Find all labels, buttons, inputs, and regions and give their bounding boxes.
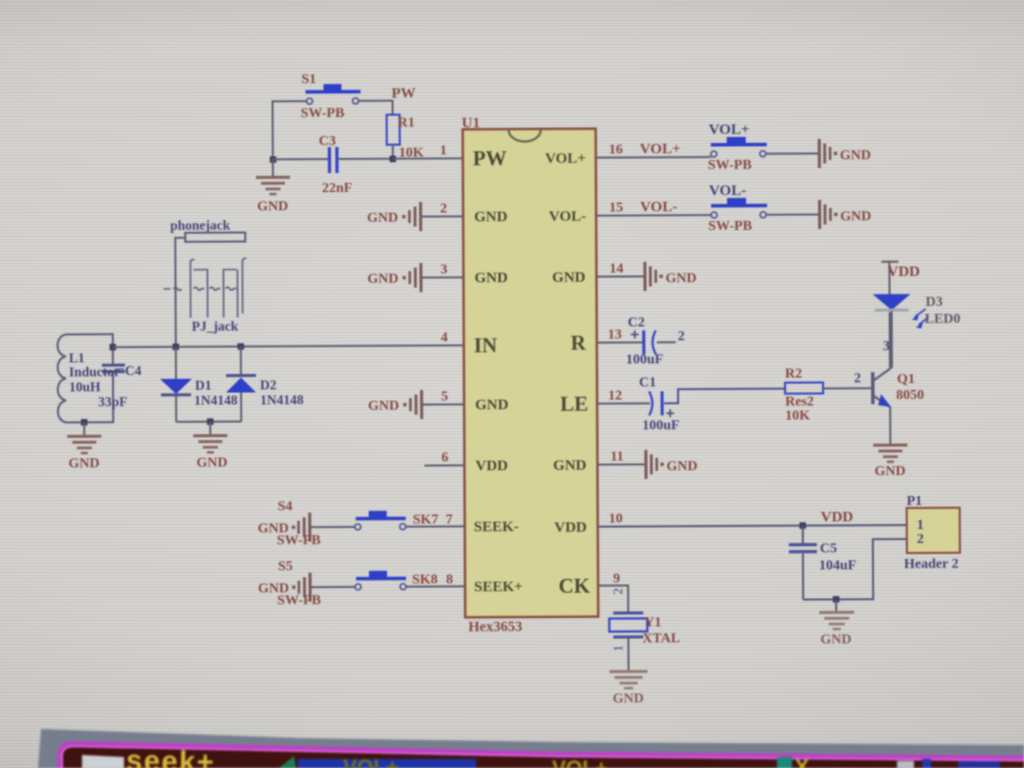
- wire pin14 to gnd: [596, 275, 644, 277]
- wire GND node to C3: [273, 158, 329, 160]
- svg-text:GND: GND: [840, 209, 871, 224]
- svg-text:3: 3: [440, 262, 447, 277]
- gnd terminal pin3: [367, 263, 463, 293]
- svg-text:X: X: [795, 756, 809, 768]
- svg-text:GND: GND: [257, 199, 288, 214]
- svg-text:16: 16: [609, 143, 623, 158]
- svg-text:2: 2: [440, 201, 447, 216]
- svg-text:SEEK-: SEEK-: [474, 519, 519, 535]
- svg-text:Hex3653: Hex3653: [468, 619, 522, 635]
- gnd terminal S4 row: [258, 512, 355, 542]
- svg-text:10: 10: [609, 512, 623, 527]
- svg-text:22nF: 22nF: [322, 181, 352, 196]
- svg-text:14: 14: [609, 262, 623, 277]
- svg-text:9: 9: [613, 572, 620, 587]
- wire pin9 to crystal: [598, 585, 628, 612]
- svg-text:phonejack: phonejack: [170, 218, 231, 233]
- label C4 with leader: [115, 368, 124, 370]
- svg-text:GND: GND: [367, 211, 398, 226]
- svg-text:33pF: 33pF: [98, 394, 127, 409]
- white thumbnail: [82, 755, 124, 768]
- svg-text:GND: GND: [474, 209, 508, 225]
- node D2 top: [238, 343, 245, 350]
- svg-text:2: 2: [678, 329, 685, 344]
- node junction left of C3: [270, 156, 277, 163]
- bottom video window gray frame: [38, 729, 1024, 768]
- blue bar VOL: [298, 759, 476, 768]
- diode D1: [160, 347, 238, 422]
- svg-text:U1: U1: [462, 115, 480, 131]
- teal icon: [777, 757, 792, 768]
- node gnd stem: [833, 596, 840, 603]
- svg-text:SK7: SK7: [413, 512, 439, 527]
- svg-text:100uF: 100uF: [642, 418, 679, 433]
- capacitor C4 plates: [102, 364, 125, 367]
- svg-text:C1: C1: [639, 375, 656, 390]
- wire C3 to R1 node: [339, 158, 393, 160]
- svg-text:S5: S5: [278, 559, 293, 574]
- svg-text:8: 8: [446, 572, 453, 587]
- switch VOL-: [708, 183, 767, 234]
- wire C1 to R2: [664, 389, 785, 404]
- svg-text:VOL-: VOL-: [640, 199, 677, 215]
- green marker: [279, 756, 296, 768]
- node D1 top: [173, 344, 180, 351]
- U1 notch: [509, 130, 541, 142]
- svg-text:VOL+: VOL+: [552, 757, 607, 768]
- wire S4 to pin7: [406, 525, 465, 527]
- svg-text:GND: GND: [874, 464, 905, 479]
- svg-text:LED0: LED0: [925, 312, 961, 327]
- svg-text:Y1: Y1: [644, 615, 661, 630]
- svg-text:Q1: Q1: [897, 372, 915, 387]
- bottom video dark red panel: [63, 746, 1024, 768]
- svg-text:SW-PB: SW-PB: [301, 106, 345, 121]
- connector P1: [904, 494, 960, 572]
- switch S4: [277, 499, 406, 549]
- wire switch VOL- to gnd: [766, 213, 819, 215]
- svg-text:VOL-: VOL-: [709, 183, 746, 199]
- IC U1 body: [463, 129, 599, 618]
- wire D1 D2 bottom: [176, 421, 241, 423]
- svg-text:Inductor: Inductor: [69, 364, 120, 379]
- transistor Q1: [871, 368, 924, 407]
- svg-text:VDD: VDD: [475, 458, 508, 474]
- node junction R1 bottom: [390, 156, 397, 163]
- svg-text:C2: C2: [628, 315, 645, 330]
- ground below diodes: [193, 422, 227, 471]
- ground below S1: [256, 159, 290, 214]
- wire pin12 to C1: [597, 402, 650, 404]
- svg-text:VOL+: VOL+: [343, 756, 398, 768]
- svg-text:2: 2: [854, 371, 861, 386]
- wire R2 to Q1 base: [823, 387, 871, 389]
- svg-text:10uH: 10uH: [69, 379, 101, 394]
- svg-text:SW-PB: SW-PB: [277, 533, 321, 548]
- wire Q1 emitter to gnd: [889, 406, 891, 445]
- svg-text:VDD: VDD: [554, 520, 587, 536]
- svg-text:S1: S1: [301, 72, 316, 87]
- capacitor C2: [626, 315, 685, 367]
- svg-text:R1: R1: [398, 116, 415, 131]
- wire pin16 to switch: [596, 156, 711, 159]
- svg-text:LE: LE: [560, 392, 588, 416]
- svg-text:6: 6: [441, 450, 448, 465]
- svg-text:R: R: [571, 331, 587, 355]
- gnd terminal S5 row: [258, 572, 355, 602]
- gnd terminal VOL+ row: [818, 139, 871, 168]
- switch S5: [277, 559, 406, 609]
- svg-text:R2: R2: [785, 367, 802, 382]
- svg-text:VDD: VDD: [887, 264, 920, 280]
- svg-text:L1: L1: [69, 350, 85, 365]
- wire switch VOL+ to gnd: [766, 152, 819, 154]
- svg-text:GND: GND: [552, 270, 586, 286]
- svg-text:10K: 10K: [785, 409, 810, 424]
- capacitor C5: [789, 525, 857, 599]
- svg-text:2: 2: [917, 532, 924, 547]
- wire pin13 to C2: [597, 341, 643, 343]
- svg-text:PW: PW: [391, 86, 415, 102]
- svg-text:3: 3: [883, 339, 890, 354]
- svg-text:PJ_jack: PJ_jack: [192, 319, 239, 334]
- svg-text:15: 15: [609, 201, 623, 216]
- svg-text:GND: GND: [474, 270, 508, 286]
- bottom magenta border: [60, 744, 1024, 768]
- svg-text:1: 1: [917, 518, 924, 533]
- wire pin15 to switch: [596, 214, 711, 217]
- blue glyphs right: [897, 761, 914, 768]
- svg-text:GND: GND: [367, 272, 398, 287]
- svg-text:XTAL: XTAL: [642, 631, 680, 646]
- svg-text:1: 1: [440, 143, 447, 158]
- switch S1: [300, 72, 360, 121]
- wire S1 left contact to GND node: [273, 101, 307, 159]
- svg-text:13: 13: [608, 328, 622, 343]
- svg-text:Res2: Res2: [785, 395, 814, 410]
- svg-text:GND: GND: [666, 459, 697, 474]
- wire main IN net: [113, 345, 464, 347]
- svg-text:SEEK+: SEEK+: [474, 579, 523, 595]
- gnd terminal pin2: [367, 202, 463, 232]
- svg-text:7: 7: [446, 512, 453, 527]
- svg-text:5: 5: [441, 389, 448, 404]
- wire phonejack stem: [175, 238, 186, 347]
- switch VOL+: [708, 122, 767, 173]
- ground below L1: [67, 419, 101, 471]
- svg-text:C4: C4: [125, 363, 142, 378]
- node diode gnd: [207, 418, 214, 425]
- svg-text:VOL+: VOL+: [545, 151, 586, 167]
- svg-text:GND: GND: [196, 456, 227, 471]
- gnd terminal VOL- row: [818, 200, 871, 229]
- wire S1 right contact to PW corner: [359, 101, 393, 115]
- wire S5 to pin8: [406, 585, 465, 587]
- gnd terminal pin11: [644, 450, 697, 479]
- wire pin6 stub: [424, 464, 464, 466]
- svg-text:2: 2: [610, 588, 625, 595]
- node L1 top: [110, 344, 117, 351]
- svg-text:D3: D3: [926, 295, 943, 310]
- capacitor C1: [639, 375, 680, 433]
- svg-text:Header 2: Header 2: [904, 557, 959, 572]
- wire crystal to gnd: [627, 638, 629, 671]
- svg-text:VOL+: VOL+: [709, 122, 750, 138]
- svg-text:GND: GND: [553, 458, 587, 474]
- svg-text:GND: GND: [68, 456, 99, 471]
- svg-text:D2: D2: [260, 377, 277, 392]
- wire pin10 VDD to P1: [598, 525, 907, 527]
- gnd terminal pin5: [368, 390, 464, 420]
- svg-text:SW-PB: SW-PB: [277, 593, 321, 608]
- svg-text:VOL-: VOL-: [549, 209, 586, 225]
- svg-text:GND: GND: [820, 632, 851, 647]
- svg-text:100uF: 100uF: [626, 352, 663, 367]
- svg-text:VOL+: VOL+: [640, 141, 681, 157]
- svg-text:VDD: VDD: [821, 509, 854, 525]
- gnd terminal pin14: [643, 262, 696, 291]
- svg-text:11: 11: [610, 450, 623, 465]
- svg-text:CK: CK: [559, 574, 591, 598]
- wire R1 bottom to node: [392, 145, 394, 159]
- svg-text:D1: D1: [195, 378, 212, 393]
- svg-text:104uF: 104uF: [819, 558, 856, 573]
- svg-text:C5: C5: [820, 541, 837, 556]
- wire pin11 to gnd: [597, 463, 645, 465]
- ground below Q1: [873, 444, 907, 480]
- svg-text:4: 4: [441, 330, 448, 345]
- resistor R2: [785, 366, 823, 423]
- svg-text:8050: 8050: [896, 388, 924, 403]
- ground below C5: [819, 599, 854, 647]
- node C5 top: [799, 522, 806, 529]
- phonejack body bar: [185, 232, 245, 241]
- svg-text:C3: C3: [319, 134, 336, 149]
- svg-text:IN: IN: [474, 333, 497, 357]
- crystal Y1: [609, 588, 680, 652]
- svg-text:P1: P1: [907, 494, 923, 509]
- svg-text:GND: GND: [665, 271, 696, 286]
- power port VDD top: [881, 260, 920, 294]
- svg-text:seek+: seek+: [126, 745, 216, 768]
- svg-text:GND: GND: [613, 691, 644, 706]
- svg-text:SW-PB: SW-PB: [708, 219, 752, 234]
- wire C5 bottom to P1 pin2: [803, 539, 907, 600]
- svg-text:1: 1: [610, 645, 625, 652]
- svg-text:GND: GND: [840, 148, 871, 163]
- jack PJ_jack contacts: [163, 258, 246, 318]
- capacitor C3: [319, 134, 353, 196]
- svg-text:PW: PW: [473, 146, 507, 170]
- ground below crystal: [610, 670, 648, 707]
- svg-text:SK8: SK8: [412, 572, 438, 587]
- svg-text:SW-PB: SW-PB: [708, 158, 752, 173]
- svg-text:1N4148: 1N4148: [260, 392, 304, 407]
- svg-text:12: 12: [608, 389, 622, 404]
- LED D3: [873, 294, 961, 368]
- svg-text:S4: S4: [278, 499, 293, 514]
- resistor R1: [387, 115, 424, 161]
- diode D2: [226, 346, 304, 421]
- wire Q1 collector: [889, 312, 891, 368]
- svg-text:1N4148: 1N4148: [194, 393, 238, 408]
- inductor L1 loop: [58, 334, 114, 422]
- svg-text:GND: GND: [475, 397, 509, 413]
- wire node to pin 1: [393, 157, 463, 159]
- svg-text:GND: GND: [368, 399, 399, 414]
